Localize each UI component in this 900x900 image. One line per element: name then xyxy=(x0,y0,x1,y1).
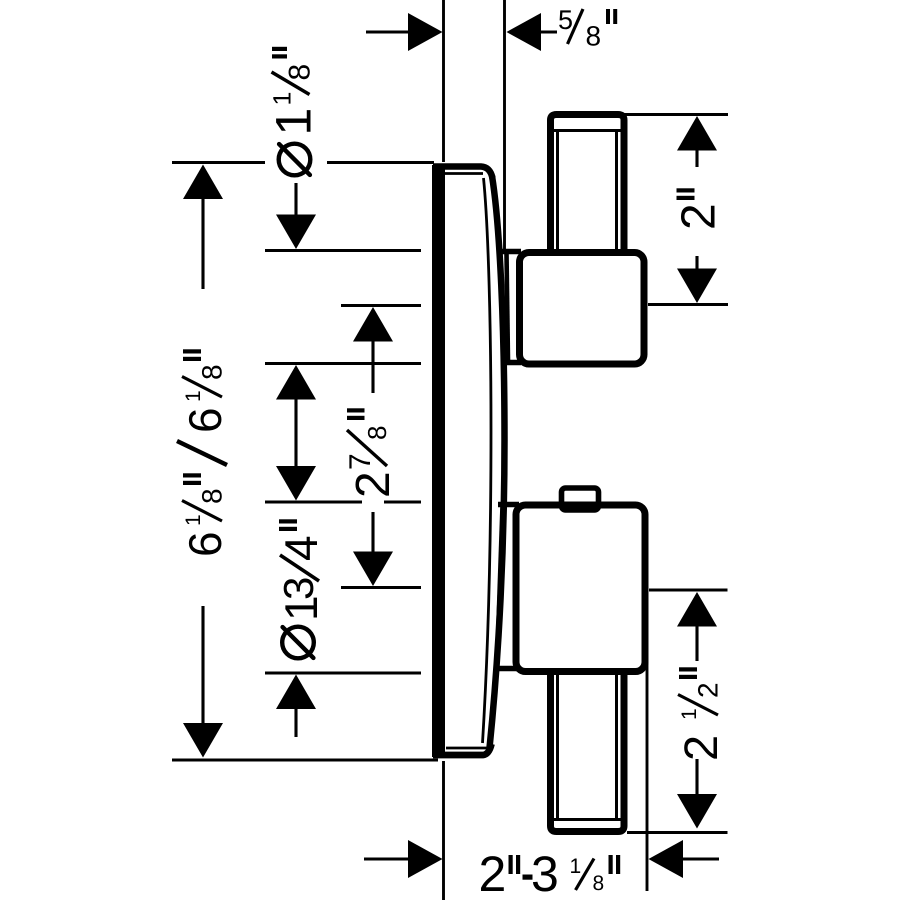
bottom handle stem inner bottom line xyxy=(553,818,621,821)
extension line plate back (bottom) xyxy=(442,761,445,900)
dia 1 3/4 arrow up xyxy=(276,675,316,710)
label 5/8 inch xyxy=(559,10,572,29)
dim line plate top xyxy=(172,161,265,164)
top handle sleeve top edge xyxy=(503,249,522,255)
bottom handle stem outline xyxy=(551,673,625,832)
dim line sleeve bottom xyxy=(265,362,421,365)
dim line stem bottom xyxy=(627,831,728,834)
dim line lower handle center right xyxy=(649,589,728,592)
bottom handle stem inner right line xyxy=(615,674,618,820)
5/8 dim arrow right xyxy=(408,13,443,51)
top handle body xyxy=(520,253,645,365)
bottom handle sleeve front edge xyxy=(497,506,503,667)
2 inch dim arrow up xyxy=(677,116,717,151)
extension line plate back (top) xyxy=(442,0,445,162)
extension line handle front (bottom) xyxy=(646,657,649,891)
dim line upper handle center xyxy=(341,304,421,307)
dim line stem top xyxy=(624,113,728,116)
label 6 1/8 inch / 6 1/8 inch xyxy=(177,349,227,554)
top handle sleeve front edge xyxy=(507,253,509,361)
escutcheon plate dome front edge xyxy=(490,176,505,748)
escutcheon plate back edge xyxy=(432,165,445,757)
dim line lower handle center xyxy=(341,586,421,589)
2 1/2 dim arrow up xyxy=(677,592,717,627)
dia 1 1/8 arrow down xyxy=(294,183,297,218)
label diameter 1 3/4 inch xyxy=(282,627,314,659)
top handle stem inner right line xyxy=(615,131,618,250)
dim line sleeve top xyxy=(265,249,421,252)
dim line upper handle center right xyxy=(648,303,728,306)
escutcheon plate inner dome line xyxy=(483,178,492,743)
top handle stem inner top line xyxy=(553,129,621,132)
label 2 7/8 inch xyxy=(347,408,389,495)
2 7/8 dim arrow up xyxy=(353,307,393,342)
2-3 1/8 dim arrow left xyxy=(649,840,684,878)
bottom handle sleeve bottom edge xyxy=(498,666,519,672)
label 2 1/2 inch xyxy=(678,667,718,758)
5/8 dim arrow left xyxy=(507,13,542,51)
2-3 1/8 dim arrow right xyxy=(364,857,409,860)
escutcheon plate bottom edge xyxy=(433,744,492,755)
bottom handle stem inner left line xyxy=(556,674,559,820)
escutcheon plate inner top line xyxy=(445,172,483,175)
6 1/8 dim arrow up xyxy=(183,165,223,200)
2 7/8 dim arrow down xyxy=(371,512,374,556)
label 2 inch - 3 1/8 inch xyxy=(481,856,504,891)
bottom handle index tab xyxy=(562,488,599,510)
dim line lower body top xyxy=(265,501,362,504)
escutcheon plate inner bottom line xyxy=(446,747,488,750)
dim line plate bottom xyxy=(172,759,438,762)
top handle stem inner left line xyxy=(556,131,559,250)
escutcheon plate top edge xyxy=(433,167,493,179)
6 1/8 dim arrow down xyxy=(183,723,223,758)
label diameter 1 1/8 inch xyxy=(279,144,311,176)
2 1/2 dim arrow down xyxy=(695,759,698,797)
bottom handle sleeve top edge xyxy=(498,502,519,508)
top handle stem outline xyxy=(551,115,625,252)
top handle sleeve bottom edge xyxy=(503,360,522,366)
dim line lower body bottom xyxy=(265,672,421,675)
dia 1 1/8 arrow down 2 xyxy=(276,466,316,501)
dia 1 1/8 arrow up xyxy=(276,365,316,400)
label 2 inch xyxy=(677,188,715,227)
extension line dome front (top) xyxy=(503,0,506,249)
bottom handle body xyxy=(516,505,645,672)
2 inch dim arrow down xyxy=(695,256,698,276)
